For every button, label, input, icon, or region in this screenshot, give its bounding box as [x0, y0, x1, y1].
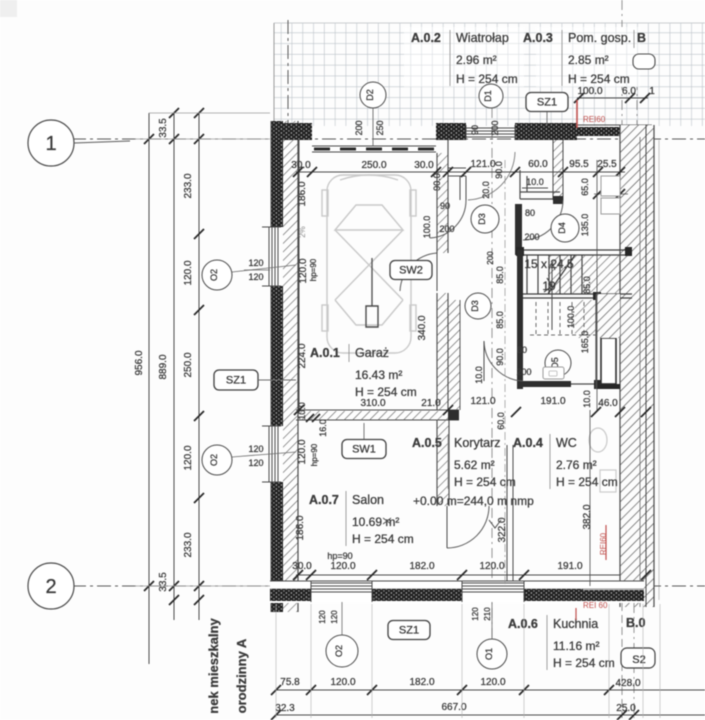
salon-corridor door arc [447, 506, 489, 548]
svg-text:A.0.5: A.0.5 [412, 436, 442, 450]
axis vertical top right b [636, 40, 638, 125]
svg-text:2.96 m²: 2.96 m² [456, 53, 497, 67]
svg-text:382.0: 382.0 [582, 504, 593, 529]
garage door to corridor arc [400, 253, 437, 291]
svg-text:120: 120 [248, 258, 263, 268]
SW2 box [390, 261, 432, 280]
svg-text:120.0: 120.0 [297, 439, 308, 464]
svg-text:80: 80 [517, 345, 527, 355]
svg-text:SZ1: SZ1 [399, 625, 419, 637]
svg-text:A.0.6: A.0.6 [508, 617, 538, 631]
svg-text:SW1: SW1 [352, 444, 376, 456]
label halo pom gosp [536, 27, 640, 87]
svg-text:11.16 m²: 11.16 m² [553, 639, 599, 653]
svg-text:H = 254 cm: H = 254 cm [352, 532, 414, 546]
stairs upper flight treads [526, 255, 528, 294]
corridor-WC wall [506, 445, 508, 581]
svg-text:32.3: 32.3 [275, 703, 295, 714]
stairs direction arrow [551, 262, 553, 330]
corridor-WC wall piece [522, 299, 524, 389]
axis vertical top right a [621, 0, 623, 125]
svg-text:310.0: 310.0 [360, 398, 385, 409]
svg-text:hp=90: hp=90 [310, 443, 319, 466]
svg-text:95.5: 95.5 [569, 159, 589, 170]
svg-text:H = 254 cm: H = 254 cm [556, 475, 618, 489]
svg-text:2: 2 [45, 576, 56, 598]
bottom dim total 667 [276, 714, 705, 716]
SZ1 box bottom [388, 621, 430, 640]
dim 100.0 6.0 top right [577, 97, 648, 99]
svg-text:30.0: 30.0 [291, 160, 311, 171]
svg-text:120.0: 120.0 [183, 260, 194, 285]
label halo wiatrolap [404, 27, 524, 87]
top window wiatrolap [466, 127, 515, 129]
axis line 2 horizontal [72, 585, 705, 587]
circle D4 [551, 214, 579, 242]
svg-text:121.0: 121.0 [470, 396, 495, 407]
bottom extension lines [275, 604, 277, 718]
svg-text:10.69 m²: 10.69 m² [352, 515, 399, 529]
garage-corridor wall lower strip [448, 300, 460, 410]
salon right wall [436, 420, 438, 506]
svg-text:A.0.7: A.0.7 [309, 493, 339, 507]
circle D3 upper [471, 205, 499, 233]
svg-text:B: B [637, 31, 646, 45]
svg-text:186.0: 186.0 [295, 515, 306, 540]
SZ1 box top [526, 93, 568, 112]
svg-text:80: 80 [525, 208, 535, 218]
svg-text:200: 200 [354, 120, 364, 135]
left wall window 1 [268, 227, 280, 286]
svg-text:100.0: 100.0 [422, 216, 432, 239]
bottom exterior wall [270, 581, 644, 603]
svg-text:90: 90 [470, 125, 480, 135]
svg-text:667.0: 667.0 [441, 702, 466, 713]
axis vertical above building [287, 20, 289, 128]
svg-text:orodzinny A: orodzinny A [234, 638, 249, 713]
garage right wall [437, 153, 448, 253]
circle D5 [545, 350, 571, 376]
red REI60 right [605, 525, 607, 560]
window circle O1 bottom [477, 639, 507, 669]
svg-text:nek mieszkalny: nek mieszkalny [206, 618, 221, 714]
svg-text:428.0: 428.0 [615, 678, 640, 689]
svg-text:90.0: 90.0 [495, 348, 505, 366]
svg-text:60.0: 60.0 [528, 159, 548, 170]
stairs upper flight hatch [548, 255, 620, 294]
window marker O2 lower [202, 445, 232, 475]
drain mark garage [366, 306, 378, 327]
svg-text:121.0: 121.0 [470, 159, 495, 170]
svg-text:33.5: 33.5 [158, 572, 169, 592]
svg-text:75.8: 75.8 [280, 677, 300, 688]
svg-text:120: 120 [318, 610, 327, 624]
hatch right of lower flight [575, 300, 596, 338]
top wall band far right [577, 127, 652, 136]
svg-text:120.0: 120.0 [330, 561, 355, 572]
svg-text:85.0: 85.0 [495, 311, 505, 329]
WC right closet niche [601, 338, 616, 384]
left dim chain segments [198, 113, 200, 620]
svg-text:65.0: 65.0 [580, 178, 590, 196]
svg-text:200: 200 [490, 120, 500, 135]
top wall block wiatrolap right [515, 123, 577, 140]
svg-text:100.0: 100.0 [566, 306, 576, 329]
stairs lower dashed box [530, 334, 596, 336]
svg-text:H = 254 cm: H = 254 cm [553, 656, 615, 670]
door D3 arc wiatrolap [430, 200, 466, 238]
svg-text:16.0: 16.0 [318, 419, 328, 437]
svg-text:85.0: 85.0 [495, 266, 505, 284]
svg-text:233.0: 233.0 [183, 532, 194, 557]
corridor-stairs wall upper [515, 204, 522, 255]
svg-text:10.0: 10.0 [526, 177, 544, 187]
svg-text:O2: O2 [209, 269, 219, 281]
svg-text:H = 254 cm: H = 254 cm [568, 72, 630, 86]
svg-text:H = 254 cm: H = 254 cm [355, 385, 417, 399]
circle D3 lower [465, 293, 491, 319]
svg-text:SZ1: SZ1 [226, 375, 246, 387]
svg-text:WC: WC [556, 436, 577, 450]
left dim extension lines [135, 138, 270, 140]
axis line 1 horizontal [72, 138, 705, 140]
svg-text:Wiatrołap: Wiatrołap [456, 31, 509, 45]
door axis circle D1 [479, 84, 503, 108]
svg-text:Garaż: Garaż [355, 346, 389, 360]
svg-text:120.0: 120.0 [298, 258, 309, 283]
right inner vertical dim chain [596, 160, 598, 410]
svg-text:O1: O1 [484, 648, 494, 660]
stairs lower flight dashed treads [535, 302, 537, 335]
svg-text:Salon: Salon [352, 493, 384, 507]
stairs cut line [548, 255, 575, 294]
svg-text:B.0: B.0 [626, 616, 646, 630]
svg-text:21.0: 21.0 [421, 398, 441, 409]
svg-text:120: 120 [248, 458, 263, 468]
rounded box fragment top right [633, 54, 655, 69]
vert dim 382 [589, 410, 591, 586]
svg-text:25.0: 25.0 [616, 703, 636, 714]
left dim line total 956 [148, 113, 150, 664]
svg-text:120: 120 [330, 610, 339, 624]
dim chain mid 121 191 46 [448, 409, 646, 411]
washer pom gosp [601, 176, 620, 196]
svg-text:233.0: 233.0 [183, 173, 194, 198]
svg-text:O2: O2 [209, 454, 219, 466]
svg-text:90: 90 [440, 201, 450, 211]
svg-text:Korytarz: Korytarz [454, 436, 501, 450]
svg-text:250.0: 250.0 [361, 160, 386, 171]
door D5 arc WC [484, 341, 523, 381]
svg-text:REI60: REI60 [583, 115, 606, 124]
SW1 box [363, 423, 365, 440]
left wall window 2 [268, 426, 280, 482]
svg-text:322.0: 322.0 [497, 517, 508, 542]
inner wall right of stairs [596, 294, 620, 338]
svg-text:S2: S2 [632, 654, 645, 666]
svg-text:D3: D3 [470, 300, 480, 312]
svg-text:A.0.4: A.0.4 [513, 436, 543, 450]
svg-text:2.76 m²: 2.76 m² [556, 458, 597, 472]
dim 10.0 underline [522, 187, 548, 189]
svg-text:6.0: 6.0 [622, 86, 636, 97]
svg-text:+0.00 m=244,0 m nmp: +0.00 m=244,0 m nmp [413, 494, 534, 508]
stairs mid landing wall [523, 293, 632, 295]
top wall block left corner [273, 123, 312, 140]
SZ box right fragment [621, 648, 655, 668]
svg-text:10.0: 10.0 [474, 366, 484, 384]
svg-text:SW2: SW2 [399, 265, 423, 277]
svg-text:191.0: 191.0 [540, 396, 565, 407]
svg-text:A.0.2: A.0.2 [411, 31, 441, 45]
svg-text:956.0: 956.0 [134, 350, 145, 375]
interior vert dim 85 85 20 200 10 [504, 160, 506, 586]
wiatrolap-pomgosp wall [553, 140, 563, 200]
axis bubble 2 [28, 563, 74, 609]
svg-text:120.0: 120.0 [479, 561, 504, 572]
svg-text:100.0: 100.0 [577, 86, 602, 97]
svg-text:90.0: 90.0 [432, 173, 442, 191]
red marker top [576, 100, 578, 128]
svg-text:186.0: 186.0 [297, 181, 308, 206]
bottom window kitchen [462, 582, 524, 584]
svg-text:889.0: 889.0 [158, 354, 169, 379]
window marker O2 upper [202, 260, 232, 290]
top-left gray square [0, 0, 17, 17]
svg-text:5.62 m²: 5.62 m² [454, 458, 495, 472]
SZ1 box left [214, 370, 258, 390]
svg-text:120: 120 [471, 607, 480, 621]
svg-text:224.0: 224.0 [297, 343, 308, 368]
bottom dim chain 75.8 etc [276, 689, 705, 691]
svg-text:25.5: 25.5 [597, 159, 617, 170]
svg-text:30.0: 30.0 [414, 160, 434, 171]
pomgosp west wall [519, 170, 521, 199]
svg-text:120.0: 120.0 [183, 445, 194, 470]
svg-text:D2: D2 [365, 89, 375, 101]
svg-text:85.0: 85.0 [582, 276, 592, 294]
right exterior wall hatched [620, 125, 654, 607]
svg-text:hp=90: hp=90 [309, 258, 318, 281]
pomgosp south wall [520, 191, 560, 193]
svg-text:D3: D3 [477, 213, 487, 225]
paving grid top [274, 23, 705, 126]
garage top dim chain 30 250 30 [296, 171, 466, 173]
svg-text:120: 120 [248, 272, 263, 282]
svg-text:250: 250 [375, 120, 385, 135]
svg-text:D4: D4 [557, 222, 567, 234]
svg-text:60.0: 60.0 [496, 412, 506, 430]
svg-text:Pom. gosp.: Pom. gosp. [568, 31, 631, 45]
garage-salon dividing wall [296, 409, 459, 411]
door D4 arc [523, 200, 563, 240]
svg-text:250.0: 250.0 [183, 352, 194, 377]
svg-text:200: 200 [486, 251, 495, 265]
svg-text:182.0: 182.0 [409, 561, 434, 572]
garage door opening lines [312, 145, 436, 147]
svg-text:210: 210 [483, 607, 492, 621]
svg-text:200: 200 [516, 367, 531, 377]
svg-text:H = 254 cm: H = 254 cm [456, 72, 518, 86]
svg-text:200: 200 [439, 224, 454, 234]
salon arrow mark [383, 518, 391, 524]
svg-text:120.0: 120.0 [480, 677, 505, 688]
svg-text:182.0: 182.0 [409, 677, 434, 688]
svg-text:16.43 m²: 16.43 m² [355, 368, 402, 382]
svg-text:30.0: 30.0 [292, 561, 312, 572]
garage inner left wall line [298, 140, 300, 412]
svg-text:191.0: 191.0 [557, 561, 582, 572]
window circle O2 bottom [326, 635, 358, 667]
svg-text:H = 254 cm: H = 254 cm [454, 475, 516, 489]
svg-text:120: 120 [248, 444, 263, 454]
svg-text:33.5: 33.5 [158, 118, 169, 138]
axis bubble 1 [28, 120, 74, 166]
door axis circle D2 [360, 82, 386, 108]
svg-text:REI60: REI60 [599, 532, 608, 555]
bottom inner dim chain 30 120 182 120 191 [296, 574, 620, 576]
svg-text:A.0.1: A.0.1 [310, 346, 340, 360]
svg-text:hp=90: hp=90 [327, 551, 352, 561]
door D1 arc top wall [468, 152, 515, 200]
svg-text:1: 1 [649, 86, 655, 97]
svg-text:2.85 m²: 2.85 m² [568, 53, 609, 67]
svg-text:REI 60: REI 60 [583, 601, 608, 610]
svg-text:SZ1: SZ1 [537, 97, 557, 109]
svg-text:D1: D1 [483, 90, 493, 102]
svg-text:20.0: 20.0 [481, 181, 491, 199]
svg-text:135.0: 135.0 [580, 214, 590, 237]
neighbour boundary line [658, 140, 660, 600]
left dim line 889 [173, 113, 175, 620]
WC bottom wall [517, 381, 571, 387]
svg-text:1: 1 [45, 133, 56, 155]
axis vertical D1 line [491, 108, 493, 638]
WC fixtures [589, 428, 607, 452]
level arrow [489, 520, 501, 528]
bottom window salon [311, 582, 372, 584]
stairs left wall [517, 250, 523, 389]
svg-text:340.0: 340.0 [417, 315, 428, 340]
dim chain 121 60 95.5 25.5 [466, 171, 625, 173]
svg-text:2%: 2% [298, 226, 307, 238]
svg-text:O2: O2 [334, 645, 344, 657]
svg-text:165.0: 165.0 [580, 331, 590, 354]
svg-text:90.0: 90.0 [494, 161, 504, 179]
wiatrolap north stub wall [448, 167, 466, 169]
svg-text:19: 19 [542, 279, 556, 293]
svg-text:10.0: 10.0 [582, 390, 592, 408]
car in garage [322, 175, 416, 353]
stairs top wall [516, 249, 632, 251]
svg-text:A.0.3: A.0.3 [523, 31, 553, 45]
bottom-right party wall stub [621, 603, 623, 718]
top wall block right of garage door [436, 123, 466, 140]
svg-text:15 x 24.5: 15 x 24.5 [524, 257, 574, 271]
svg-text:200: 200 [524, 232, 539, 242]
left exterior wall [271, 121, 283, 227]
appliance in WC [543, 367, 564, 379]
svg-text:120.0: 120.0 [330, 677, 355, 688]
